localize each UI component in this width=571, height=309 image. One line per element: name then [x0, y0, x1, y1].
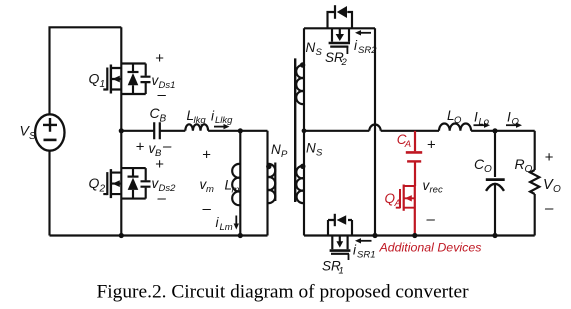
- node primary bottom Q2: [119, 233, 124, 238]
- capacitor CO: [474, 131, 505, 236]
- svg-text:+: +: [427, 136, 436, 153]
- wire secondary bottom rail: [304, 234, 535, 236]
- transistor SR2: [325, 5, 352, 68]
- transistor Q1: [89, 50, 176, 104]
- current label ILo: [474, 110, 491, 128]
- svg-text:B: B: [155, 148, 162, 159]
- current label IO: [506, 110, 522, 128]
- resistor RO: [515, 131, 540, 236]
- svg-text:A: A: [404, 139, 411, 150]
- current label iLlkg: [211, 109, 233, 130]
- inductor LO: [439, 108, 471, 131]
- svg-text:+: +: [155, 50, 164, 67]
- wire left lower: [48, 151, 50, 236]
- svg-text:–: –: [162, 138, 172, 155]
- svg-text:S: S: [316, 47, 323, 58]
- node Lm bottom: [238, 233, 243, 238]
- node center tap: [302, 128, 307, 133]
- node B (Lm tap): [238, 128, 243, 133]
- node CO bottom: [492, 233, 497, 238]
- svg-text:m: m: [206, 184, 214, 195]
- svg-text:O: O: [525, 164, 533, 175]
- svg-text:A: A: [394, 198, 401, 209]
- svg-text:–: –: [426, 211, 436, 228]
- svg-text:–: –: [157, 190, 167, 207]
- transformer primary NP: [266, 131, 288, 236]
- wire center tap rail with hop: [304, 130, 439, 132]
- svg-text:Q: Q: [89, 71, 100, 87]
- svg-text:O: O: [484, 164, 492, 175]
- wire CB to Llkg: [160, 130, 186, 132]
- svg-text:2: 2: [341, 57, 348, 68]
- svg-text:O: O: [553, 184, 561, 195]
- label vrec: [423, 178, 443, 196]
- wire Q1 drain-source vertical: [120, 27, 122, 131]
- node A (half-bridge mid): [119, 128, 124, 133]
- transformer secondary NS bottom: [296, 141, 323, 204]
- transistor QA (red): [385, 185, 415, 236]
- svg-text:Lm: Lm: [220, 222, 233, 233]
- svg-text:rec: rec: [430, 185, 443, 196]
- inductor Lm: [200, 131, 241, 236]
- transistor SR1: [322, 214, 352, 277]
- current label iSR1: [353, 238, 375, 260]
- svg-text:I: I: [474, 110, 478, 125]
- svg-text:m: m: [232, 185, 240, 196]
- svg-text:1: 1: [339, 266, 344, 277]
- wire primary bottom rail: [50, 234, 268, 236]
- node SR2 return: [372, 233, 377, 238]
- svg-text:Figure.2. Circuit diagram of p: Figure.2. Circuit diagram of proposed co…: [97, 282, 470, 303]
- label + VO -: [543, 149, 561, 217]
- transistor Q2: [89, 156, 177, 207]
- capacitor CB: [136, 105, 173, 159]
- capacitor CA (red): [397, 131, 422, 186]
- wire Llkg to node B: [208, 130, 267, 132]
- svg-text:S: S: [29, 131, 36, 142]
- svg-text:S: S: [316, 148, 323, 159]
- svg-text:+: +: [545, 149, 554, 166]
- wire LO to output: [471, 130, 535, 132]
- svg-text:R: R: [515, 156, 525, 172]
- wire top-left frame: [50, 27, 122, 114]
- svg-text:O: O: [454, 115, 462, 126]
- svg-text:–: –: [202, 201, 212, 218]
- wire hop over SR2 wire: [369, 125, 380, 131]
- svg-text:Additional Devices: Additional Devices: [379, 241, 482, 255]
- svg-text:N: N: [306, 141, 316, 156]
- node LO-CO junction: [492, 128, 497, 133]
- svg-text:–: –: [544, 200, 554, 217]
- svg-text:N: N: [306, 40, 316, 55]
- voltage source VS: [20, 114, 65, 150]
- wire SR2 right vertical: [374, 28, 376, 235]
- svg-text:N: N: [271, 142, 281, 157]
- svg-text:lkg: lkg: [194, 115, 207, 126]
- svg-text:+: +: [136, 139, 145, 156]
- transformer core: [274, 163, 276, 202]
- svg-text:P: P: [281, 149, 288, 160]
- wire secondary top rail: [304, 27, 375, 29]
- svg-text:1: 1: [100, 79, 106, 90]
- svg-text:SR1: SR1: [357, 250, 375, 261]
- inductor Llkg: [185, 108, 208, 131]
- transformer secondary NS top: [296, 28, 322, 235]
- wire Q2 vertical: [120, 131, 122, 236]
- node QA return: [412, 233, 417, 238]
- svg-text:B: B: [160, 114, 167, 125]
- current label iLm: [216, 215, 240, 233]
- svg-text:Q: Q: [89, 175, 100, 191]
- svg-text:I: I: [507, 110, 511, 125]
- svg-text:2: 2: [99, 184, 106, 195]
- wire node A to CB: [121, 130, 154, 132]
- current label iSR2: [354, 30, 377, 56]
- svg-text:+: +: [202, 147, 211, 164]
- svg-text:–: –: [157, 87, 167, 104]
